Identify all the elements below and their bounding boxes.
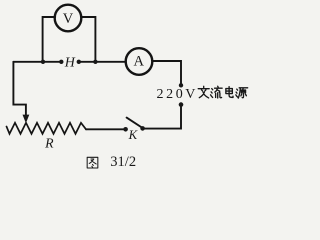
label hanzi 源 (source): [236, 88, 248, 98]
ammeter U2 circle: [126, 48, 153, 75]
label hanzi 流 (AC): [211, 86, 223, 98]
node junction left voltmeter tap: [41, 60, 45, 64]
wire left drop from H-line: [13, 62, 26, 117]
switch K blade: [127, 118, 143, 128]
svg-text:R: R: [44, 135, 54, 150]
node source bottom terminal: [179, 102, 184, 107]
node switch right contact: [140, 126, 145, 131]
svg-text:A: A: [134, 53, 145, 69]
label hanzi 电 (electric): [226, 87, 233, 98]
label hanzi 图 (figure): [87, 157, 98, 168]
svg-text:V: V: [63, 11, 74, 27]
voltmeter U1 circle: [55, 5, 82, 32]
label hanzi 交 (AC): [198, 86, 209, 98]
rheostat wiper arrowhead: [23, 115, 30, 124]
node H left terminal: [59, 60, 63, 64]
node switch left contact: [123, 127, 128, 132]
svg-text:K: K: [128, 128, 139, 142]
wire H-line left segment: [13, 61, 59, 63]
node junction right voltmeter tap: [93, 60, 97, 64]
svg-text:31/2: 31/2: [110, 154, 136, 170]
wire voltmeter left stub: [43, 17, 56, 62]
wire ammeter to right column: [152, 61, 181, 85]
svg-text:H: H: [64, 55, 76, 70]
node source top terminal: [179, 83, 183, 87]
wire switch to rheostat: [86, 128, 124, 130]
wire H-line right segment to ammeter: [80, 61, 126, 63]
svg-text:220V: 220V: [157, 87, 199, 102]
node H right terminal: [77, 60, 81, 64]
wire voltmeter right stub: [81, 17, 95, 62]
wire source bottom to switch: [144, 105, 181, 129]
resistor R zigzag: [7, 123, 87, 134]
